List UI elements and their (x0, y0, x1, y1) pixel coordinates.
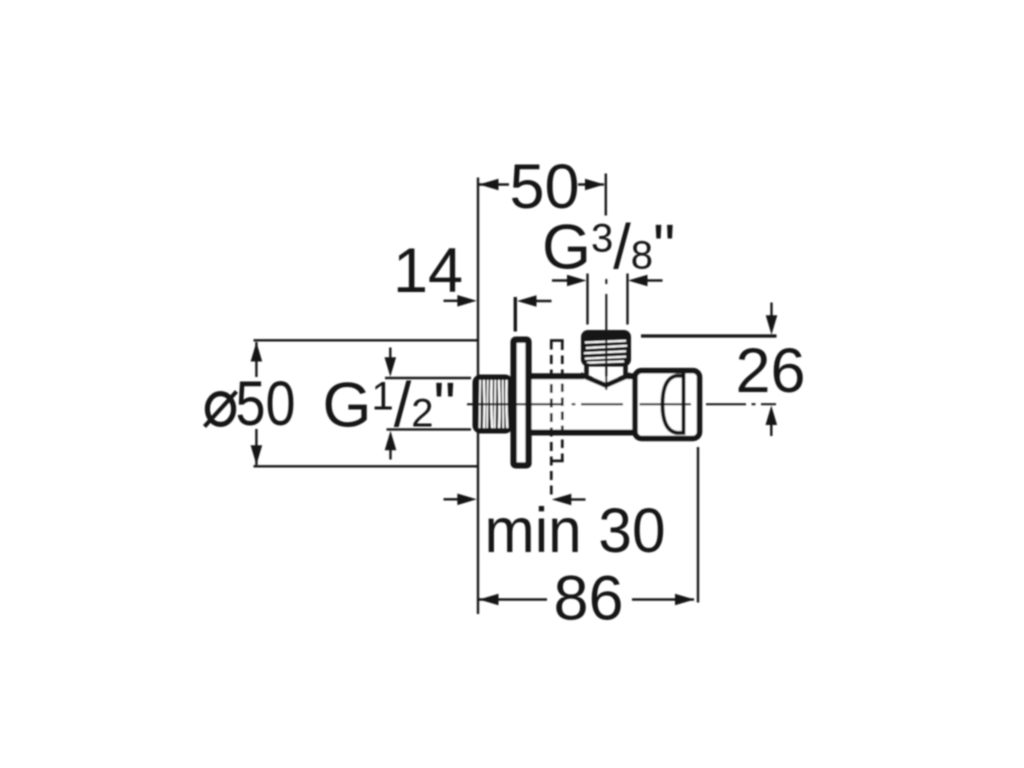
outlet inner profile (D shape) (663, 376, 684, 433)
dimension 14 arrows (444, 300, 460, 302)
dimension 86 (bottom) (479, 447, 698, 603)
main horizontal centerline (467, 403, 776, 405)
top port chamfer chevron (581, 375, 631, 386)
threaded inlet G1/2 (left, black with thread stripes) (473, 375, 514, 434)
body outline (top and bottom of cylinder) (528, 376, 638, 432)
dimension 50 (top) (479, 174, 606, 216)
hidden wall (dashed rectangle) (550, 341, 564, 500)
svg-text:50: 50 (509, 152, 579, 222)
node: top port centerline (605, 279, 607, 390)
dimension G3/8 arrows + extension lines (552, 274, 663, 325)
dimension diameter 50 (left) (254, 340, 479, 466)
dimension G1/2 arrows + extension lines (385, 348, 471, 460)
svg-text:86: 86 (553, 564, 623, 634)
top port neck (584, 363, 589, 375)
dimension 26 (right) (641, 303, 777, 437)
body fill (529, 377, 637, 431)
dimension min 30 (bottom) (444, 498, 460, 500)
svg-text:14: 14 (393, 236, 463, 306)
svg-text:min 30: min 30 (485, 496, 666, 566)
top port threaded block G3/8 (581, 330, 631, 367)
svg-text:26: 26 (735, 336, 805, 406)
flange / wall plate (514, 340, 529, 466)
wire: left vertical extension (wall) line (477, 178, 479, 615)
outlet nut (right) (635, 371, 700, 439)
svg-text:50: 50 (236, 369, 296, 439)
